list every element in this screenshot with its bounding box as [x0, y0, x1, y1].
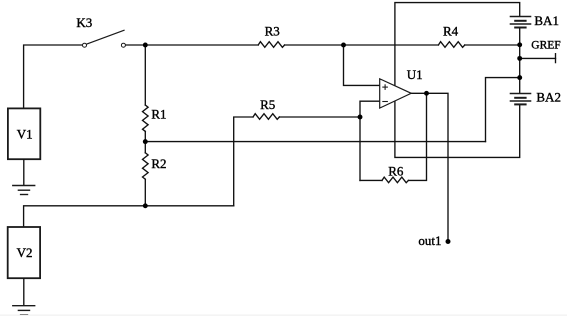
wire R5 right to inverting node	[279, 116, 360, 118]
resistor R1	[143, 105, 149, 131]
wire switch K3 to node at R1 top	[126, 44, 146, 46]
svg-text:R4: R4	[443, 24, 459, 39]
svg-text:out1: out1	[418, 233, 441, 248]
battery BA2	[510, 93, 532, 104]
wire GREF stub	[520, 57, 556, 59]
wire R2 bottom to bottom node	[144, 179, 146, 206]
wire R6 left lead	[360, 179, 382, 181]
wire negative supply pin of U1 to BA2 bottom	[395, 101, 520, 157]
junction node R1/R2 mid	[143, 139, 148, 144]
wire R5 riser up	[234, 117, 253, 206]
junction node output / R6	[424, 91, 429, 96]
wire non-inverting input branch from top wire	[344, 45, 380, 85]
resistor R5	[253, 114, 279, 120]
svg-text:GREF: GREF	[531, 40, 560, 52]
wire rail R1: node top to R1	[144, 45, 146, 105]
wire R4 right to BA1 rail	[465, 44, 520, 46]
wire V1 bottom to ground	[23, 159, 25, 185]
voltage source V2	[8, 227, 40, 278]
junction node R5 / inverting input	[358, 115, 363, 120]
wire R3 right to node plus-branch	[285, 44, 344, 46]
wire inverting input branch	[360, 101, 380, 180]
junction node R4/BA1 rail	[517, 42, 522, 47]
faint window edge line at bottom	[0, 315, 567, 316]
svg-text:R1: R1	[151, 107, 166, 122]
svg-text:K3: K3	[76, 15, 92, 30]
wire right riser up to BA2 top node	[486, 78, 520, 142]
svg-text:BA1: BA1	[534, 13, 559, 28]
svg-text:V2: V2	[17, 245, 33, 260]
battery BA1	[510, 16, 532, 27]
svg-text:R6: R6	[388, 164, 404, 179]
resistor R4	[438, 42, 464, 48]
op-amp U1	[380, 79, 412, 108]
svg-text:R2: R2	[151, 156, 166, 171]
junction node plus-branch on top wire	[341, 43, 346, 48]
wire node plus-branch to R4 left	[344, 44, 439, 46]
svg-text:R5: R5	[260, 97, 275, 112]
junction node R1 top	[143, 43, 148, 48]
wire bottom line V2 to R5 riser	[24, 206, 234, 227]
wire mid reference line from R1/R2 node to right riser	[145, 141, 485, 143]
svg-text:V1: V1	[17, 126, 33, 141]
wire top-left from V1 to switch K3	[24, 45, 83, 109]
svg-text:U1: U1	[407, 67, 423, 82]
ground below V2	[12, 306, 35, 315]
resistor R2	[143, 153, 149, 179]
wire positive supply pin of U1 to top feedback rail	[395, 3, 520, 86]
svg-text:R3: R3	[265, 23, 280, 38]
ground below V1	[12, 186, 35, 195]
node out1 terminal dot	[446, 239, 451, 244]
wire R6 right lead up to output node	[408, 93, 426, 180]
resistor R6	[382, 177, 408, 183]
junction node BA2 top / reference	[517, 75, 522, 80]
GREF terminal tick	[555, 54, 557, 63]
switch K3	[83, 30, 126, 47]
wire node R1-top to R3 left	[145, 44, 258, 46]
junction node R2 bottom	[143, 203, 148, 208]
voltage source V1	[8, 108, 40, 159]
wire op-amp output to out1 riser	[411, 93, 448, 241]
svg-text:BA2: BA2	[536, 90, 561, 105]
wire V2 bottom to ground	[23, 278, 25, 306]
wire R1 bottom to mid node	[144, 131, 146, 152]
junction node GREF	[517, 56, 522, 61]
resistor R3	[258, 42, 284, 48]
wire BA1 bottom to GREF node chain	[519, 28, 521, 94]
